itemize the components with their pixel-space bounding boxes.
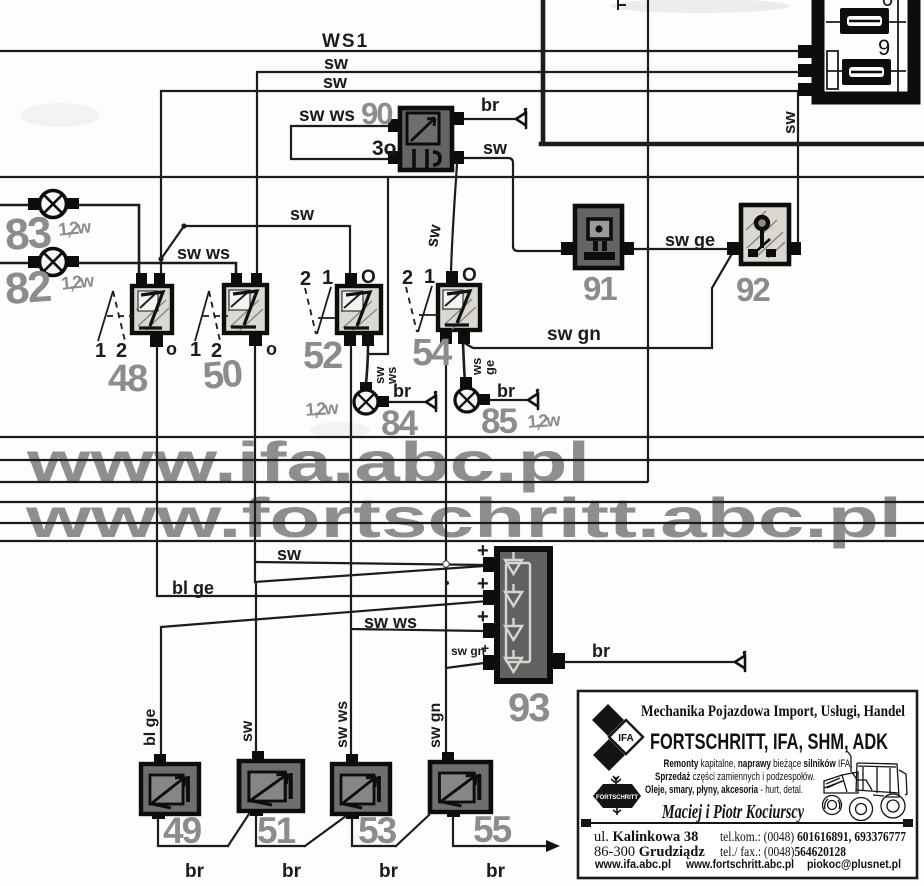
svg-text:2: 2	[402, 267, 413, 289]
svg-text:53: 53	[358, 810, 397, 851]
svg-text:piokoc@plusnet.pl: piokoc@plusnet.pl	[807, 857, 901, 871]
wire br chain 49 to 51	[158, 814, 249, 846]
svg-text:1: 1	[424, 266, 435, 288]
indicator unit 49	[141, 754, 199, 819]
svg-text:O: O	[361, 267, 376, 288]
svg-text:2: 2	[300, 268, 311, 290]
svg-text:sw: sw	[277, 544, 302, 564]
wire bl ge diagonal down to 49	[161, 601, 488, 764]
card divider	[585, 822, 911, 824]
lamp 85	[455, 377, 490, 412]
wire vertical x648	[647, 0, 649, 481]
svg-text:1: 1	[95, 340, 106, 362]
svg-text:br: br	[282, 861, 302, 882]
svg-text:1,2w: 1,2w	[527, 410, 562, 432]
lamp 84	[354, 382, 389, 414]
svg-text:51: 51	[257, 810, 296, 851]
wire bus y482 to corner x648	[0, 481, 647, 483]
svg-text:sw: sw	[239, 720, 256, 742]
svg-text:sw gn: sw gn	[427, 703, 444, 748]
terminal at br of diode block 93	[735, 652, 745, 671]
svg-text:br: br	[185, 861, 205, 882]
junction node at 93 pin1 crossing (white hop)	[443, 561, 449, 567]
svg-text:49: 49	[163, 810, 202, 851]
svg-text:+: +	[477, 573, 489, 595]
svg-text:ws: ws	[384, 367, 399, 385]
svg-text:83: 83	[3, 208, 52, 260]
terminal at br of 90	[516, 109, 526, 128]
svg-text:0: 0	[882, 0, 893, 11]
svg-text:sw ws: sw ws	[364, 612, 417, 632]
lamp 83	[28, 191, 79, 218]
wire lamp 82 row sw ws	[0, 263, 236, 274]
svg-text:br: br	[497, 381, 515, 401]
wire sw bus upper	[257, 72, 812, 274]
wire sw vertical x798 to switch 92	[797, 91, 799, 246]
svg-text:+: +	[481, 640, 489, 656]
svg-text:84: 84	[381, 404, 418, 443]
svg-text:Sprzedaż części zamiennych i p: Sprzedaż części zamiennych i podzespołów…	[655, 771, 815, 783]
svg-text:FORTSCHRITT, IFA, SHM, ADK: FORTSCHRITT, IFA, SHM, ADK	[650, 729, 888, 754]
svg-text:br: br	[481, 95, 499, 115]
svg-text:www.ifa.abc.pl: www.ifa.abc.pl	[594, 857, 671, 871]
switch 50	[224, 273, 267, 346]
indicator unit 51	[239, 751, 303, 816]
wire br from lamp 84	[388, 401, 426, 403]
switch position marks 54	[418, 286, 432, 332]
svg-text:1,2w: 1,2w	[60, 270, 96, 293]
wire sw bus lower	[161, 91, 812, 273]
wire bus y541	[0, 540, 924, 542]
terminal at br of lamp 85	[528, 390, 538, 409]
switch position marks 48	[98, 291, 113, 341]
wire bus y460	[0, 459, 924, 461]
svg-text:sw gn: sw gn	[451, 644, 485, 658]
svg-text:WS1: WS1	[322, 31, 369, 52]
svg-text:54: 54	[412, 332, 452, 374]
wire 54 to lamp 85	[463, 344, 465, 380]
svg-text:3o: 3o	[372, 137, 397, 160]
svg-text:O: O	[462, 265, 477, 286]
flasher unit 90	[388, 108, 464, 170]
switch position marks 52	[317, 287, 331, 334]
terminal arrow at end of br chain	[546, 840, 560, 852]
wire br from diode block 93	[564, 661, 735, 663]
svg-text:93: 93	[508, 686, 549, 730]
fuse 9	[840, 8, 889, 34]
wire sw gn 54 to 92	[466, 252, 733, 348]
svg-text:br: br	[486, 861, 506, 882]
svg-text:sw: sw	[324, 53, 349, 73]
wire br from 90 to terminal	[456, 118, 516, 120]
wire sw mid line to switch 52	[184, 226, 350, 275]
svg-text:ge: ge	[482, 360, 497, 375]
switch 52	[337, 273, 381, 346]
svg-text:br: br	[379, 861, 399, 882]
IFA logo diamonds	[592, 704, 624, 736]
wire 52 to lamp 84	[366, 346, 368, 384]
wire sw from 90 down to switch 54	[451, 164, 457, 272]
svg-text:1: 1	[190, 339, 201, 361]
svg-text:82: 82	[3, 262, 52, 314]
svg-text:Maciej i Piotr Kociurscy: Maciej i Piotr Kociurscy	[661, 801, 804, 823]
svg-text:ul. Kalinkowa 38: ul. Kalinkowa 38	[594, 829, 698, 845]
blinker indicator relay 91	[561, 206, 634, 268]
switch position marks 50	[195, 291, 209, 341]
wire br chain 55 to terminal	[453, 812, 546, 846]
svg-text:tel.kom.: (0048) 601616891, 69: tel.kom.: (0048) 601616891, 693376777	[720, 829, 906, 844]
svg-text:sw ws: sw ws	[299, 105, 355, 126]
svg-text:91: 91	[583, 270, 617, 307]
svg-text:85: 85	[481, 402, 517, 441]
wire bus y437	[0, 436, 924, 438]
svg-text:Oleje, smary, płyny, akcesoria: Oleje, smary, płyny, akcesoria - hurt, d…	[645, 784, 803, 796]
wire bus y523	[0, 522, 924, 524]
junction node sw at x161	[158, 256, 163, 261]
svg-text:sw: sw	[780, 111, 799, 134]
wire br chain 53 to 55	[352, 814, 429, 846]
switch 48	[132, 273, 172, 347]
scan noise patches	[610, 0, 790, 13]
svg-text:br: br	[592, 641, 610, 661]
svg-text:52: 52	[303, 335, 342, 377]
lamp 82	[28, 249, 79, 276]
svg-text:sw ws: sw ws	[177, 243, 230, 263]
svg-text:55: 55	[473, 809, 512, 850]
svg-text:90: 90	[361, 96, 392, 131]
diode block 93	[483, 549, 565, 681]
svg-text:1,2w: 1,2w	[305, 398, 340, 420]
svg-text:Remonty kapitalne, naprawy bie: Remonty kapitalne, naprawy bieżące silni…	[664, 758, 853, 770]
wire x388 feed from y177 to lamp 84 branch	[370, 177, 388, 354]
svg-text:1,2w: 1,2w	[57, 216, 93, 239]
fuse 10	[842, 59, 891, 85]
wire sw branch diagonal to node	[161, 226, 184, 259]
wire br chain 51 to 53	[256, 811, 346, 846]
svg-text:sw gn: sw gn	[547, 324, 601, 345]
business card	[578, 691, 917, 878]
svg-text:92: 92	[736, 271, 770, 308]
junction node sw diagonal top	[181, 223, 186, 228]
indicator unit 55	[430, 752, 491, 817]
svg-text:+: +	[477, 540, 489, 562]
wire br from lamp 85	[489, 399, 528, 401]
svg-text:FORTSCHRITT: FORTSCHRITT	[596, 794, 638, 801]
svg-text:sw: sw	[290, 204, 315, 224]
svg-text:1: 1	[322, 267, 333, 289]
wire U-loop at flasher 90 (sw ws / 30)	[291, 126, 400, 159]
wire 48 output down and bl ge to diode pin2	[157, 346, 486, 598]
wire 50 output down, diagonal to diode pin1, down to 51	[255, 346, 484, 761]
wire full-width line y177	[0, 176, 924, 178]
svg-text:sw ws: sw ws	[334, 701, 351, 748]
wire sw line to diode pin1	[257, 562, 484, 565]
wire thick feed from top	[541, 0, 924, 144]
svg-text:IFA: IFA	[618, 733, 634, 744]
svg-text:Mechanika Pojazdowa Import, Us: Mechanika Pojazdowa Import, Usługi, Hand…	[641, 703, 905, 720]
svg-text:www.fortschritt.abc.pl: www.fortschritt.abc.pl	[685, 857, 794, 871]
terminal at br of lamp 84	[426, 392, 436, 411]
svg-text:bl ge: bl ge	[142, 709, 159, 746]
wire sw ge 91 to 92	[634, 248, 728, 250]
svg-text:bl ge: bl ge	[172, 578, 214, 598]
wire 52 output down, to diode pin3, down to 53	[351, 346, 484, 764]
svg-text:sw: sw	[422, 222, 445, 248]
wire bus y502	[0, 501, 924, 503]
switch 54	[438, 271, 480, 344]
switch 92	[727, 205, 801, 264]
tractor drawing	[823, 751, 908, 821]
svg-text:50: 50	[201, 353, 244, 398]
svg-text:o: o	[166, 339, 177, 359]
wire lamp 83 row	[0, 205, 139, 273]
indicator unit 53	[332, 754, 390, 819]
svg-text:9: 9	[878, 35, 890, 60]
svg-text:+: +	[477, 606, 489, 628]
fuse box (top right)	[798, 0, 914, 98]
svg-text:o: o	[266, 339, 277, 359]
svg-text:sw ge: sw ge	[665, 230, 715, 250]
wire sw from 90 to 91	[460, 158, 562, 251]
wire WS1 top bus	[0, 50, 812, 52]
svg-text:sw: sw	[483, 138, 508, 158]
svg-text:sw: sw	[323, 72, 348, 92]
fortschritt badge	[611, 776, 621, 784]
top edge tick	[618, 0, 625, 9]
wire 54 output down, diagonal to diode pin4, down to 55	[446, 344, 484, 762]
svg-text:48: 48	[108, 358, 147, 400]
